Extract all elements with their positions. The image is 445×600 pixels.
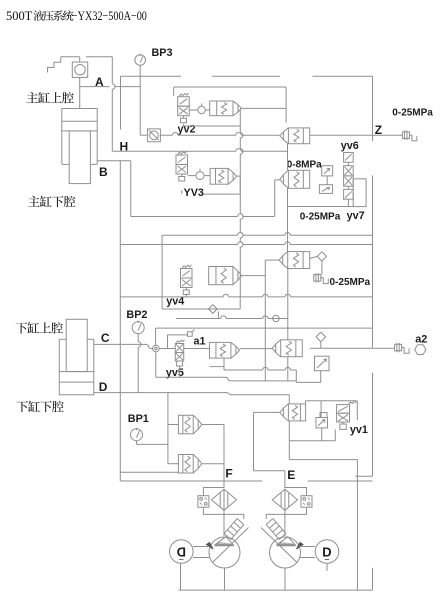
svg-text:yv7: yv7 (347, 210, 365, 222)
svg-text:E: E (287, 468, 295, 482)
svg-text:a1: a1 (194, 336, 206, 348)
svg-text:0-25MPa: 0-25MPa (300, 212, 341, 223)
svg-text:~: ~ (179, 555, 184, 565)
svg-text:BP3: BP3 (152, 47, 173, 59)
svg-text:BP1: BP1 (128, 413, 149, 425)
svg-text:D: D (99, 380, 108, 394)
svg-text:YV3: YV3 (184, 187, 204, 199)
svg-text:~: ~ (324, 555, 329, 565)
svg-text:yv2: yv2 (178, 123, 196, 135)
svg-text:B: B (99, 165, 108, 179)
svg-text:yv6: yv6 (341, 140, 359, 152)
svg-text:0-25MPa: 0-25MPa (392, 108, 433, 119)
svg-text:0-8MPa: 0-8MPa (287, 160, 322, 171)
svg-text:500T: 500T (6, 8, 32, 23)
svg-text:BP2: BP2 (126, 309, 147, 321)
svg-text:0-25MPa: 0-25MPa (330, 277, 371, 288)
svg-text:F: F (225, 467, 232, 481)
svg-text:−YX32−500A−00: −YX32−500A−00 (72, 8, 147, 23)
svg-text:yv1: yv1 (350, 424, 368, 436)
svg-text:a2: a2 (415, 334, 427, 346)
svg-text:C: C (101, 331, 110, 345)
